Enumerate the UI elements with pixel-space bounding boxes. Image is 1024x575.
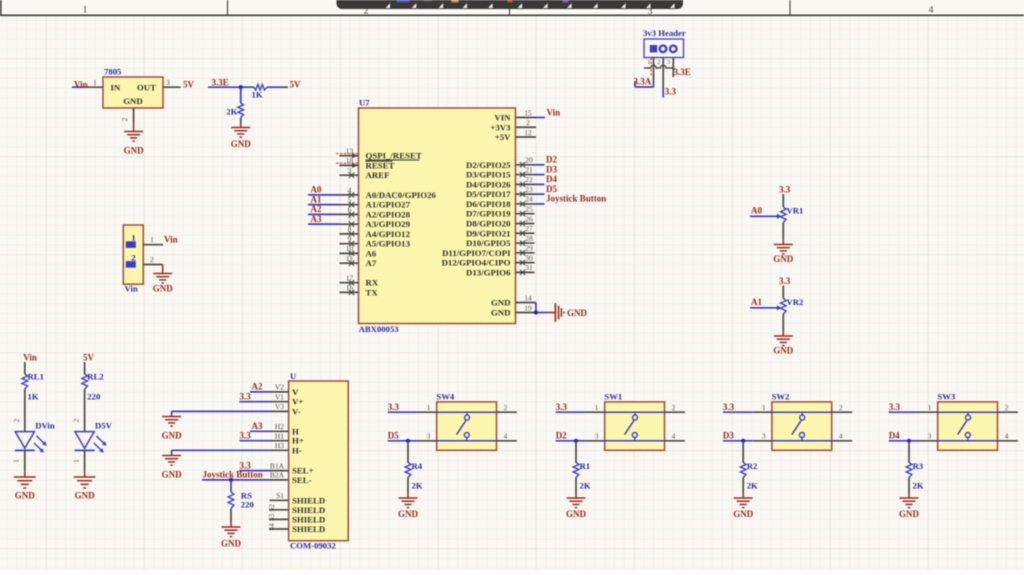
svg-text:3: 3 [928, 432, 932, 441]
svg-text:GND: GND [398, 509, 419, 519]
U7 right pin 27 D9/GPIO21 [466, 224, 534, 238]
floating dark toolbar [337, 0, 684, 9]
svg-text:15: 15 [524, 108, 532, 117]
joystick pin H3 H- [270, 441, 302, 455]
svg-text:3.3: 3.3 [388, 402, 400, 412]
svg-text:Vin: Vin [164, 235, 178, 245]
wire U7 GND pins to ground [534, 303, 547, 315]
wire and net label A1 to VR2 wiper [750, 297, 781, 311]
svg-text:QSPI_/RESET: QSPI_/RESET [366, 151, 422, 161]
svg-text:GND: GND [567, 308, 588, 318]
svg-text:IN: IN [111, 83, 121, 93]
junction at SEL- [229, 478, 233, 482]
svg-text:D5V: D5V [95, 421, 113, 431]
svg-text:3.3E: 3.3E [674, 67, 691, 77]
svg-text:VR1: VR1 [787, 205, 804, 215]
svg-text:A3: A3 [252, 421, 263, 431]
svg-text:GND: GND [899, 509, 920, 519]
net label 3.3E [212, 77, 229, 87]
svg-text:A2: A2 [311, 204, 322, 214]
potentiometer VR2 [781, 286, 804, 315]
joystick pin V2 V [270, 383, 300, 397]
svg-text:A4/GPIO12: A4/GPIO12 [366, 229, 411, 239]
svg-text:+3V3: +3V3 [490, 122, 511, 132]
svg-text:RESET: RESET [366, 160, 395, 170]
connector 3v3 Header [643, 28, 686, 58]
svg-text:V-: V- [292, 406, 301, 416]
svg-text:1: 1 [928, 403, 932, 412]
svg-text:3.3: 3.3 [889, 402, 901, 412]
wire joystick V- to ground [172, 411, 270, 416]
sheet border zone band [0, 0, 1024, 16]
joystick pin H1 H+ [270, 432, 304, 446]
svg-text:RX: RX [366, 278, 379, 288]
svg-text:2: 2 [657, 59, 660, 66]
U7 right pin 28 D10/GPIO5 [466, 234, 534, 248]
power connector Vin (2 pin) [123, 225, 143, 294]
ground bar symbol GND at U7 [547, 303, 588, 322]
wire and net label 3.3 to joystick H+ [240, 430, 270, 440]
joystick connector U COM-09032 body [289, 371, 349, 551]
wire and net label D2 to SW1 pin 3 [556, 431, 605, 441]
wire and net label D2 at U7 [535, 155, 558, 165]
ground GND below VR2 [773, 314, 794, 356]
ground GND at joystick V- [162, 417, 183, 441]
svg-text:U7: U7 [359, 98, 370, 108]
svg-text:29: 29 [525, 244, 533, 253]
wire connector pin 1 to Vin [143, 235, 163, 245]
U7 right pin 31 D13/GPIO6 [466, 263, 534, 277]
joystick pin S3 SHIELD [268, 513, 325, 524]
resistor 2K [226, 87, 243, 117]
U7 right pin 15 VIN [494, 108, 536, 122]
svg-text:1: 1 [427, 403, 431, 412]
svg-text:23: 23 [525, 185, 533, 194]
wire SW1 pin 4 [665, 432, 685, 441]
svg-text:2: 2 [120, 117, 129, 121]
svg-text:S3: S3 [268, 513, 276, 521]
svg-text:A2/GPIO28: A2/GPIO28 [366, 209, 411, 219]
svg-text:2K: 2K [412, 481, 423, 491]
svg-text:22: 22 [525, 175, 533, 184]
svg-text:GND: GND [773, 254, 794, 264]
wire SW2 pin 2 [832, 403, 852, 412]
svg-text:30: 30 [525, 253, 533, 262]
U7 right pin 20 D2/GPIO25 [466, 156, 534, 170]
svg-text:2: 2 [839, 403, 843, 412]
svg-text:A1: A1 [751, 297, 762, 307]
svg-text:D5: D5 [546, 184, 557, 194]
wire and net label A0 to U7 [308, 185, 340, 195]
resistor RL2 [82, 362, 104, 402]
ground GND below R1 [566, 478, 587, 520]
svg-text:A5/GPIO13: A5/GPIO13 [366, 239, 411, 249]
U7 right pin 23 D5/GPIO17 [466, 185, 534, 199]
microcontroller U7 ABX00053 body [359, 98, 516, 335]
ground GND below VR1 [773, 223, 794, 265]
svg-text:4: 4 [672, 432, 676, 441]
ground GND below R2 [733, 478, 754, 520]
svg-text:H3: H3 [275, 441, 284, 450]
svg-text:1: 1 [93, 78, 97, 87]
svg-text:H+: H+ [292, 436, 304, 446]
svg-text:1K: 1K [28, 392, 39, 402]
svg-text:D4/GPIO26: D4/GPIO26 [466, 179, 511, 189]
wire SW2 pin 4 [832, 432, 852, 441]
svg-text:5V: 5V [290, 80, 302, 90]
wire connector pin 2 [143, 255, 162, 265]
svg-text:2: 2 [1005, 403, 1009, 412]
svg-text:25: 25 [525, 205, 533, 214]
svg-text:A3: A3 [311, 214, 322, 224]
svg-text:SW1: SW1 [604, 392, 622, 402]
ground GND below RS [221, 509, 242, 549]
svg-text:Vin: Vin [125, 284, 138, 294]
U7 right pin 25 D7/GPIO19 [466, 205, 534, 219]
power label 5V at 7805 output [183, 80, 195, 90]
switch SW4 [436, 392, 496, 451]
svg-text:28: 28 [525, 234, 533, 243]
wire SW4 pin 4 [497, 432, 517, 441]
svg-text:2K: 2K [913, 481, 924, 491]
svg-text:SW2: SW2 [772, 392, 790, 402]
svg-text:21: 21 [525, 165, 533, 174]
joystick pin S2 SHIELD [268, 504, 325, 515]
joystick pin B1A SEL+ [270, 461, 314, 475]
joystick pin V3 V- [270, 402, 301, 416]
wire crossing header pins [644, 65, 673, 68]
svg-text:3: 3 [166, 78, 170, 87]
svg-text:DVin: DVin [35, 421, 55, 431]
resistor R1 2K [573, 441, 591, 491]
power label 5V above RL2 [83, 353, 95, 363]
wire header pin 2 [657, 58, 663, 98]
svg-text:GND: GND [231, 139, 252, 149]
svg-text:VR2: VR2 [787, 297, 804, 307]
wire and net label 3.3 to joystick SEL+ [240, 460, 270, 470]
svg-text:2: 2 [73, 418, 81, 422]
svg-text:R1: R1 [580, 461, 591, 471]
svg-text:H2: H2 [275, 422, 284, 431]
wire 3.3E to junction [208, 86, 254, 88]
svg-text:B2A: B2A [270, 471, 285, 480]
wire SW4 pin 2 [497, 403, 517, 412]
power label Vin at 7805 input [74, 80, 88, 90]
svg-text:GND: GND [773, 346, 794, 356]
svg-text:GND: GND [733, 509, 754, 519]
svg-text:D13/GPIO6: D13/GPIO6 [466, 267, 511, 277]
svg-text:OUT: OUT [137, 83, 156, 93]
svg-text:H-: H- [292, 445, 302, 455]
wire and net label D4 at U7 [535, 174, 558, 184]
wire and net label 3.3 to SW1 pin 1 [556, 402, 605, 412]
svg-text:U: U [290, 371, 297, 381]
wire U7 VIN to Vin label [536, 117, 545, 119]
svg-text:1K: 1K [252, 90, 263, 100]
svg-text:2: 2 [150, 255, 154, 264]
wire and net label D5 at U7 [535, 184, 558, 194]
svg-text:220: 220 [241, 500, 255, 510]
junction at SW1 pin 3 [574, 439, 578, 443]
wire RL1 to LED DVin [13, 389, 25, 432]
net label 3.3A [634, 77, 652, 87]
svg-text:D7/GPIO19: D7/GPIO19 [466, 209, 511, 219]
svg-text:3: 3 [762, 432, 766, 441]
svg-text:GND: GND [123, 96, 143, 106]
U7 GND pin 14 [491, 293, 536, 307]
wire and net label A2 to joystick V [250, 382, 270, 392]
ground GND below DVin [14, 470, 36, 500]
wire and net label D5 to SW4 pin 3 [388, 431, 437, 441]
wire and net label Joystick Button to SEL- [202, 470, 270, 480]
svg-text:R4: R4 [412, 461, 423, 471]
svg-text:3: 3 [595, 432, 599, 441]
svg-text:GND: GND [15, 490, 36, 500]
joystick pin S4 SHIELD [268, 523, 325, 534]
svg-text:D3/GPIO15: D3/GPIO15 [466, 170, 511, 180]
wire SW3 pin 4 [998, 432, 1018, 441]
svg-text:D12/GPIO4/CIPO: D12/GPIO4/CIPO [442, 258, 511, 268]
svg-text:V2: V2 [275, 383, 284, 392]
svg-text:A0/DAC0/GPIO26: A0/DAC0/GPIO26 [366, 190, 437, 200]
svg-text:4: 4 [504, 432, 508, 441]
U7 left pin 16 TX [340, 283, 379, 297]
svg-text:VIN: VIN [494, 113, 511, 123]
svg-text:GND: GND [75, 490, 96, 500]
svg-text:Joystick Button: Joystick Button [203, 470, 263, 480]
wire and net label A1 to U7 [308, 194, 340, 204]
power label Vin above RL1 [23, 353, 37, 363]
svg-text:3.3: 3.3 [779, 276, 791, 286]
U7 right pin 22 D4/GPIO26 [466, 175, 534, 189]
error squiggle on header pin 1 [650, 58, 652, 77]
svg-text:14: 14 [524, 293, 532, 302]
U7 left pin 5 A1/GPIO27 [340, 196, 411, 210]
svg-text:3.3: 3.3 [665, 86, 677, 96]
svg-text:3.3: 3.3 [779, 184, 791, 194]
svg-text:1: 1 [131, 232, 135, 242]
wire and net label A0 to VR1 wiper [750, 205, 781, 219]
svg-text:D5: D5 [388, 431, 399, 441]
svg-text:2: 2 [526, 118, 530, 127]
svg-text:3v3 Header: 3v3 Header [643, 28, 686, 38]
svg-text:D11/GPIO7/COPI: D11/GPIO7/COPI [442, 248, 511, 258]
svg-text:3.3: 3.3 [240, 430, 252, 440]
U7 left pin 11 A7 [340, 254, 377, 268]
voltage regulator 7805 [103, 67, 163, 109]
U7 right pin 2 +3V3 [490, 118, 536, 132]
U7 right pin 21 D3/GPIO15 [466, 165, 534, 179]
svg-text:B1A: B1A [270, 461, 285, 470]
wire and net label D4 to SW3 pin 3 [889, 431, 938, 441]
ground GND below R4 [398, 478, 419, 520]
wire header pin 3 [667, 58, 673, 78]
U7 left pin 10 A6 [340, 244, 377, 258]
svg-text:A1: A1 [311, 194, 322, 204]
svg-text:D3: D3 [546, 164, 557, 174]
svg-text:Vin: Vin [74, 80, 88, 90]
U7 left pin 17 RX [340, 274, 379, 288]
ground GND at joystick H- [162, 456, 183, 480]
svg-text:D6/GPIO18: D6/GPIO18 [466, 199, 511, 209]
svg-text:S1: S1 [276, 491, 284, 500]
U7 right pin 30 D12/GPIO4/CIPO [442, 253, 535, 267]
svg-text:D4: D4 [889, 431, 900, 441]
net label 3.3 above VR1 [779, 184, 791, 194]
svg-text:4: 4 [839, 432, 843, 441]
U7 left pin 4 A0/DAC0/GPIO26 [340, 186, 437, 200]
wire 7805 pin 3 to 5V [163, 78, 181, 87]
svg-text:A7: A7 [366, 258, 377, 268]
svg-text:GND: GND [162, 431, 183, 441]
wire RL2 to LED D5V [73, 389, 85, 432]
svg-text:SHIELD: SHIELD [292, 524, 325, 534]
svg-text:GND: GND [124, 146, 145, 156]
svg-text:2: 2 [672, 403, 676, 412]
svg-text:1: 1 [72, 459, 80, 463]
wire and net label D3 at U7 [535, 164, 558, 174]
net label 3.3 above VR2 [779, 276, 791, 286]
svg-text:12: 12 [524, 128, 532, 137]
svg-text:S4: S4 [268, 523, 276, 531]
svg-text:Vin: Vin [23, 353, 37, 363]
U7 GND pin 19 [491, 303, 535, 317]
svg-text:GND: GND [153, 284, 174, 294]
joystick pin S1 SHIELD [270, 491, 326, 505]
svg-text:D2/GPIO25: D2/GPIO25 [466, 160, 511, 170]
junction at SW4 pin 3 [406, 439, 410, 443]
power label Vin at U7 [547, 107, 561, 117]
svg-text:GND: GND [491, 308, 511, 318]
svg-text:SHIELD: SHIELD [292, 495, 325, 505]
svg-text:D5/GPIO17: D5/GPIO17 [466, 189, 511, 199]
switch SW2 [772, 392, 832, 451]
svg-text:V: V [292, 387, 299, 397]
svg-text:S2: S2 [268, 504, 276, 512]
svg-text:1: 1 [762, 403, 766, 412]
svg-text:D3: D3 [723, 431, 734, 441]
LED DVin [15, 421, 55, 453]
wire and net label A3 to U7 [308, 214, 340, 224]
svg-text:Vin: Vin [547, 107, 561, 117]
svg-text:RL2: RL2 [87, 372, 103, 382]
svg-text:SEL-: SEL- [292, 475, 312, 485]
wire SW3 pin 2 [998, 403, 1018, 412]
U7 left pin 8 A4/GPIO12 [340, 225, 411, 239]
U7 left pin 3 AREF [340, 166, 390, 180]
net label 3.3E right of header [674, 67, 691, 77]
ground GND below R3 [899, 478, 920, 520]
svg-text:4: 4 [1005, 432, 1009, 441]
U7 left pin 18 RESET [336, 156, 394, 170]
net label 3.3 below header [665, 86, 677, 96]
svg-text:2: 2 [504, 403, 508, 412]
U7 left pin 7 A3/GPIO29 [340, 215, 411, 229]
resistor RL1 [22, 362, 44, 402]
svg-text:H1: H1 [275, 432, 284, 441]
svg-text:3.3A: 3.3A [634, 77, 652, 87]
junction at SW2 pin 3 [741, 439, 745, 443]
svg-text:3: 3 [667, 59, 670, 66]
ground GND at connector [153, 265, 174, 294]
resistor 1K [252, 84, 289, 99]
LED D5V [75, 421, 113, 453]
U7 left pin 13 QSPI_/RESET [336, 147, 422, 161]
ground GND below 2K [231, 118, 252, 150]
svg-text:SW3: SW3 [937, 392, 956, 402]
svg-text:220: 220 [87, 392, 101, 402]
junction at SW3 pin 3 [907, 439, 911, 443]
wire and net label D3 to SW2 pin 3 [723, 431, 772, 441]
svg-text:A6: A6 [366, 248, 377, 258]
svg-text:1: 1 [83, 6, 88, 16]
U7 left pin 9 A5/GPIO13 [340, 235, 411, 249]
resistor RS 220 [228, 480, 254, 510]
svg-text:19: 19 [524, 303, 532, 312]
svg-text:GND: GND [162, 470, 183, 480]
power label Vin at connector [164, 235, 178, 245]
svg-text:+5V: +5V [495, 132, 511, 142]
svg-text:AREF: AREF [366, 170, 390, 180]
svg-text:24: 24 [525, 195, 533, 204]
svg-text:Joystick Button: Joystick Button [546, 194, 606, 204]
svg-text:COM-09032: COM-09032 [290, 541, 336, 551]
junction at divider [239, 85, 243, 89]
svg-text:2: 2 [131, 252, 135, 262]
svg-text:TX: TX [366, 287, 379, 297]
svg-text:4: 4 [929, 6, 934, 16]
svg-text:GND: GND [491, 298, 511, 308]
joystick pin H2 H [270, 422, 300, 436]
svg-text:R3: R3 [913, 461, 924, 471]
svg-text:31: 31 [525, 263, 533, 272]
wire and net label A2 to U7 [308, 204, 340, 214]
svg-text:GND: GND [221, 539, 242, 549]
U7 right pin 12 +5V [495, 128, 536, 142]
power label 5V right of 1K [290, 80, 302, 90]
svg-text:A3/GPIO29: A3/GPIO29 [366, 219, 411, 229]
svg-text:V+: V+ [292, 397, 303, 407]
svg-text:1: 1 [647, 59, 650, 66]
resistor R4 2K [405, 441, 423, 491]
U7 right pin 29 D11/GPIO7/COPI [442, 244, 534, 258]
wire SW1 pin 2 [665, 403, 685, 412]
wire and net label 3.3 to SW4 pin 1 [388, 402, 437, 412]
wire joystick H- to ground [172, 450, 270, 455]
svg-text:5V: 5V [183, 80, 195, 90]
svg-text:SHIELD: SHIELD [292, 505, 325, 515]
wire Vin to 7805 pin 1 [72, 78, 103, 87]
svg-text:1: 1 [595, 403, 599, 412]
svg-text:D2: D2 [546, 155, 557, 165]
wire LED D5V to ground [72, 450, 84, 470]
svg-text:GND: GND [566, 509, 587, 519]
wire LED DVin to ground [13, 450, 25, 470]
resistor R2 2K [740, 441, 758, 491]
ground GND below 7805 [124, 122, 145, 156]
svg-text:A1/GPIO27: A1/GPIO27 [366, 200, 411, 210]
svg-text:7805: 7805 [104, 67, 122, 77]
U7 right pin 24 D6/GPIO18 [466, 195, 534, 209]
svg-text:ABX00053: ABX00053 [359, 324, 400, 334]
svg-text:5V: 5V [83, 353, 95, 363]
svg-text:3: 3 [427, 432, 431, 441]
svg-text:D4: D4 [546, 174, 557, 184]
wire and net label Joystick Button at U7 [535, 194, 607, 204]
wire 7805 pin 2 down [120, 108, 134, 122]
svg-text:20: 20 [525, 156, 533, 165]
wire and net label 3.3 to SW2 pin 1 [723, 402, 772, 412]
